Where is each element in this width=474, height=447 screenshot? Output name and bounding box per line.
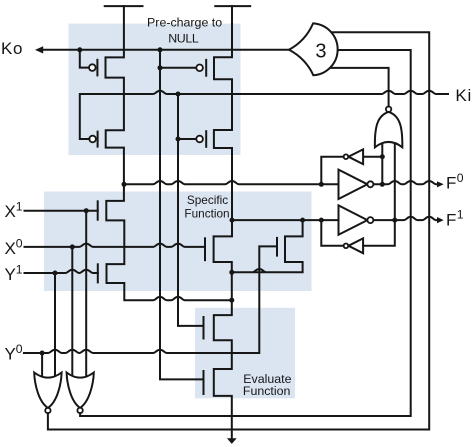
transistor M3 gate bar (X0) [204,238,206,260]
evaluate-function region highlight [195,308,295,399]
pre-charge region highlight [69,24,241,155]
VDD rail 2 [215,5,250,7]
wire Ko dropper to P2 gate and M6 gate [160,50,204,380]
transistor P1 (pre-charge PMOS, gate Ko) [80,50,89,68]
wire F0 feedback [321,157,343,185]
svg-text:3: 3 [315,40,326,62]
wire Y1 dropper to NOR1 [54,273,56,378]
threshold gate U8 (TH3 completion C-element) [289,23,338,75]
svg-text:Ki: Ki [455,86,472,105]
specific-function region highlight [44,192,312,292]
wire NOR2 output return to C-element input 2 [80,50,411,416]
transistor P4 (pre-charge PMOS, gate Ki) [178,138,196,140]
wire F1 feedback [321,220,343,246]
wire VDD2 stem + P2 channel + P4 channel + F1 column + M3 channel + M5/M6 channels + ground stem [214,6,232,439]
transistor M4 gate bar (Y0) [276,238,278,256]
svg-text:1: 1 [16,200,23,214]
wire Y1 input row [25,270,98,273]
wire F1-bar column to NOR3 and feedback input [363,144,395,246]
NOR gate U6 (input completion NOR of Y0,Y1) [34,373,61,408]
wire NOR3 output to C-element input 3 [329,68,389,107]
svg-text:F: F [446,210,456,229]
wire NOR1 output return to C-element input 1 [48,32,429,429]
Ko output arrowhead [35,46,43,53]
inverter U1 (F0 output inverter) [339,170,368,199]
transistor M5 gate bar (Ki, evaluate) [203,317,205,339]
wire Ki input line (also P3 gate wire) [80,91,448,139]
F1 output arrowhead [437,217,444,223]
wire X0 dropper to NOR2 [71,247,73,378]
transistor M2 gate bar (Y1) [97,264,99,282]
ground symbol [227,438,237,444]
svg-text:Function: Function [184,207,229,221]
wire Ko rail [43,49,290,51]
F0 output arrowhead [437,181,444,187]
wire F0 node row [124,181,339,184]
svg-text:X: X [5,202,16,221]
svg-text:1: 1 [16,262,23,276]
svg-text:X: X [5,239,16,258]
junction dots [77,47,82,52]
wire VDD1 stem + P1 channel + P3 channel + F0 column + M1/M2 channels + link to evaluate [106,6,232,300]
transistor M4 channel (Y0) + parallel link [232,220,303,272]
transistor M6 gate bar (Ko, evaluate) [203,371,205,394]
transistor P2 (pre-charge PMOS, gate Ko) [160,67,196,69]
svg-text:Function: Function [243,384,291,398]
inverter U3 (F1 output inverter) [339,205,368,234]
inverter U4 (F1 weak feedback inverter) [348,238,363,253]
wire Y0 dropper to NOR1 [41,353,43,378]
NOR gate U5 (output completion NOR of F0-bar,F1-bar) [375,112,402,147]
svg-text:1: 1 [457,208,464,222]
svg-text:Specific: Specific [187,193,228,207]
inverter U2 (F0 weak feedback inverter) [363,156,382,158]
svg-text:0: 0 [16,342,23,356]
wire X1 input row [25,210,98,212]
wire F1 node row [232,219,339,221]
svg-text:Y: Y [5,265,16,284]
transistor P3 (pre-charge PMOS, gate Ki) [89,136,96,143]
wire F0-bar column to NOR3 [381,144,383,184]
svg-text:0: 0 [457,171,464,185]
wire Y0 input row + riser to M4 gate [24,246,277,353]
svg-text:Y: Y [5,345,16,364]
wire X1 dropper to NOR2 [85,211,87,378]
wire F1-bar row to output [373,217,437,220]
wire F0-bar row to output [373,181,437,184]
NOR gate U7 (input completion NOR of X0,X1) [67,373,94,408]
wire Ki dropper to P4 gate and M5 gate [178,94,204,326]
wire X0 input row [25,244,206,247]
svg-text:F: F [446,174,456,193]
VDD rail 1 [105,5,143,7]
transistor M1 gate bar (X1) [97,201,99,219]
svg-text:0: 0 [16,236,23,250]
svg-text:Ko: Ko [1,39,23,58]
svg-text:NULL: NULL [168,32,199,46]
svg-text:Pre-charge to: Pre-charge to [147,15,222,29]
